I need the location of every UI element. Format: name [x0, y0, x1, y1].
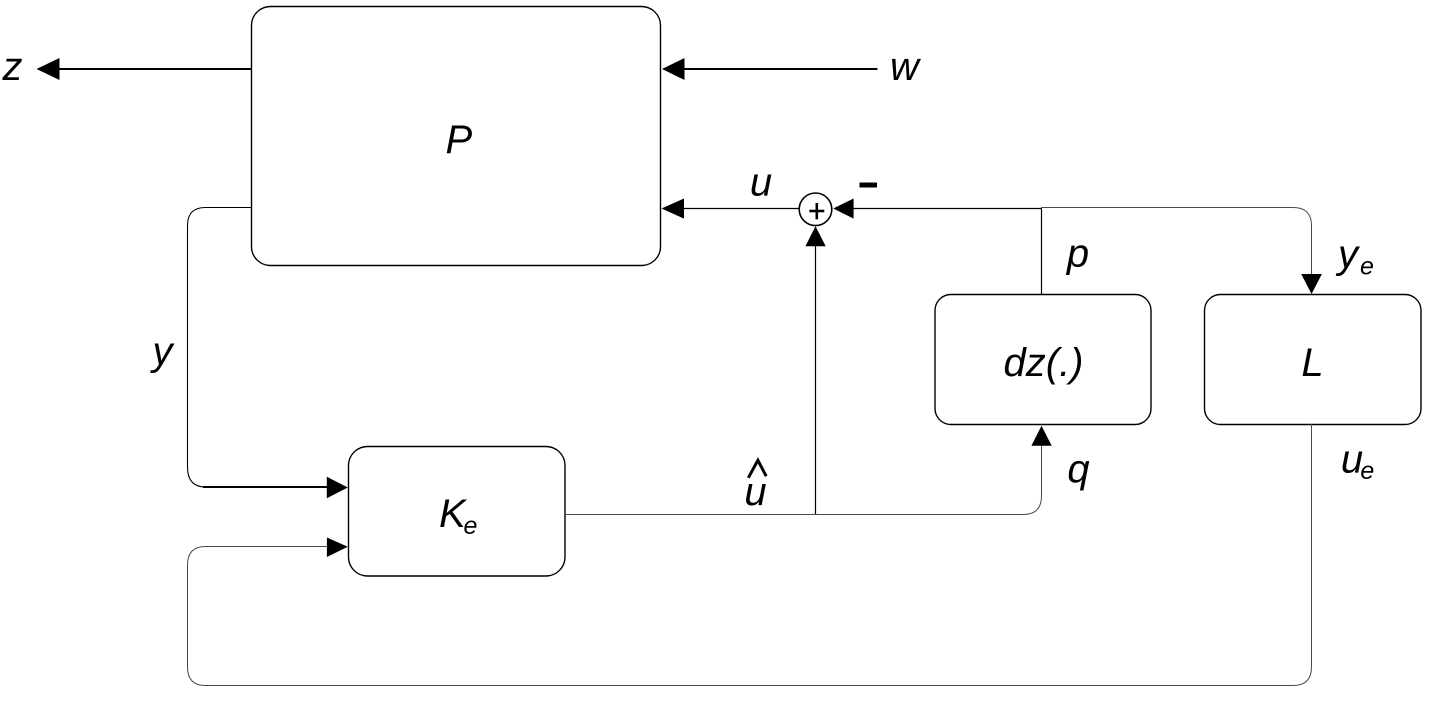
arrowhead y into Ke [327, 477, 348, 499]
svg-text:e: e [1360, 253, 1374, 281]
wire from junction to L (ye) [1041, 208, 1312, 275]
arrowhead ue into Ke [327, 538, 348, 558]
svg-text:dz(.): dz(.) [1004, 341, 1084, 385]
arrowhead w [662, 58, 685, 80]
wire uhat branch up into summing junction [815, 246, 817, 515]
wire p into dz [1041, 208, 1043, 295]
wire z output [59, 68, 252, 70]
svg-text:P: P [445, 118, 472, 162]
label minus [860, 183, 878, 188]
wire ue feedback loop from L to Ke [188, 424, 1312, 686]
svg-text:e: e [1360, 457, 1374, 485]
label uhat [748, 460, 766, 478]
block Ke [349, 447, 566, 577]
summing junction [799, 193, 832, 226]
arrowhead u [662, 199, 685, 219]
block dz(.) [935, 295, 1151, 425]
svg-text:p: p [1066, 232, 1089, 276]
arrowhead ye into L [1301, 274, 1322, 294]
svg-text:y: y [150, 330, 176, 374]
wire u into P [684, 208, 800, 210]
wire feedback into summing junction [854, 208, 1043, 210]
arrowhead uhat into summing junction [805, 226, 825, 246]
block L [1205, 295, 1422, 425]
arrowhead z [37, 58, 60, 80]
svg-text:L: L [1301, 341, 1323, 385]
svg-text:q: q [1067, 447, 1089, 491]
wire w input [684, 68, 878, 70]
svg-text:y: y [1335, 233, 1361, 277]
svg-text:e: e [464, 512, 478, 540]
svg-text:u: u [750, 161, 772, 205]
wire Ke output [565, 446, 1042, 515]
arrowhead into summing junction [833, 199, 853, 219]
block P [252, 7, 661, 266]
svg-text:w: w [890, 45, 922, 89]
svg-text:z: z [2, 45, 23, 89]
arrowhead q into dz [1031, 426, 1051, 446]
svg-text:u: u [744, 470, 766, 514]
wire y from P to Ke [188, 208, 252, 488]
